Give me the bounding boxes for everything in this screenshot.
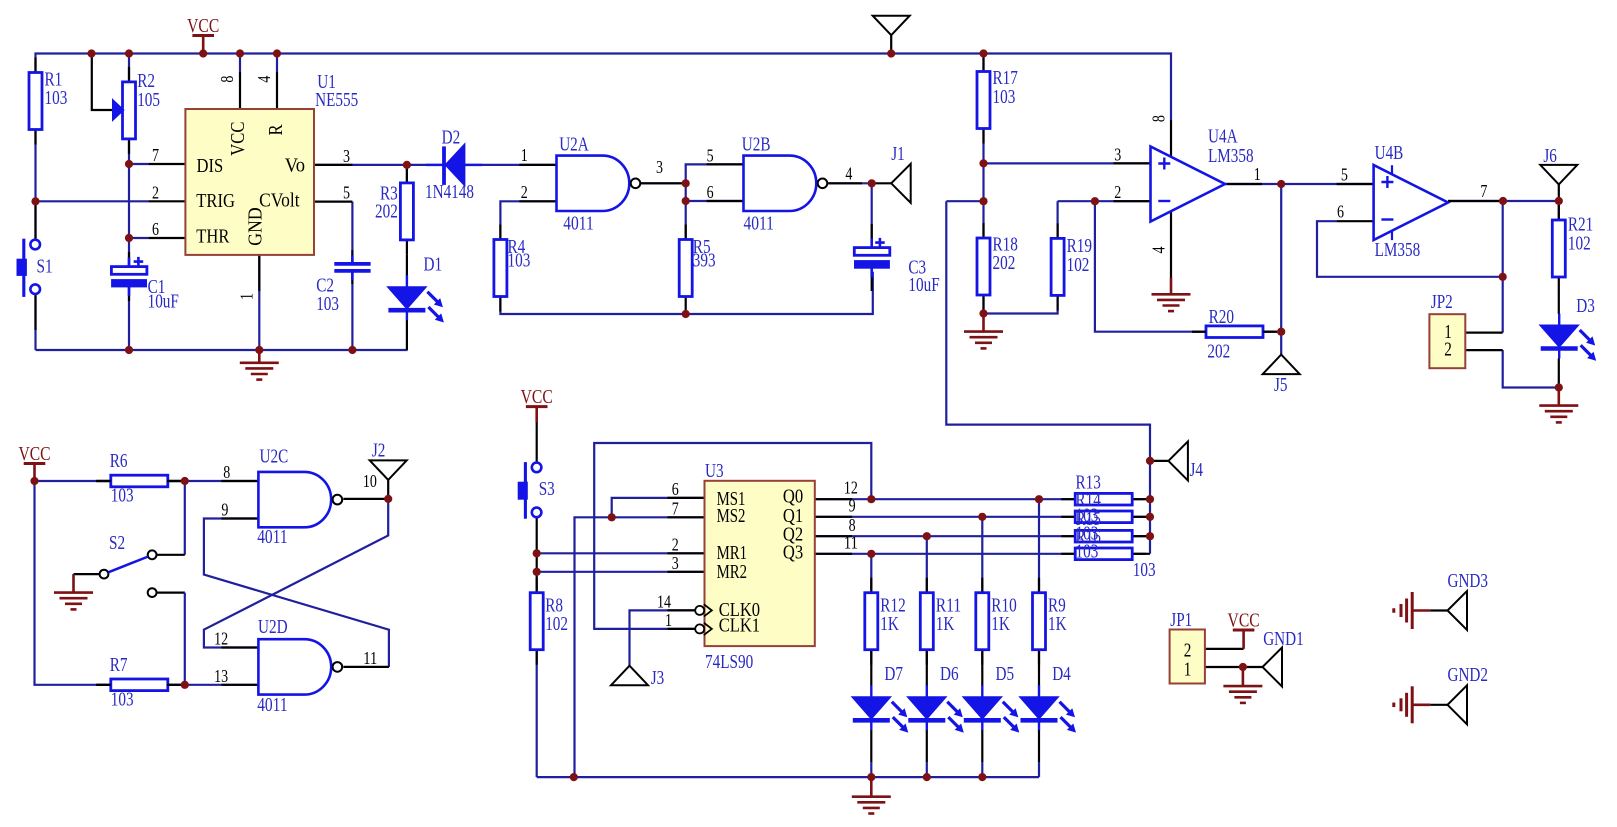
- op-amp U4B LM358: [1374, 165, 1449, 240]
- switch S1: [30, 240, 40, 250]
- svg-text:103: 103: [1076, 542, 1099, 563]
- wire Vo node to R3/D2: [314, 164, 443, 166]
- wire R2 wiper tap: [92, 54, 113, 111]
- svg-text:S2: S2: [109, 533, 125, 554]
- wire Q1 line to R14: [815, 516, 1075, 518]
- svg-text:D2: D2: [442, 128, 461, 149]
- svg-text:GND1: GND1: [1263, 629, 1304, 650]
- svg-text:4011: 4011: [744, 213, 774, 234]
- svg-text:7: 7: [152, 145, 159, 165]
- svg-text:U2D: U2D: [258, 617, 288, 638]
- connector J1: [891, 164, 911, 203]
- svg-text:6: 6: [707, 182, 714, 202]
- connector GND2 triangle: [1448, 685, 1468, 724]
- svg-text:R20: R20: [1209, 307, 1234, 328]
- svg-text:4011: 4011: [257, 527, 287, 548]
- NAND gate U2D: [258, 639, 331, 694]
- svg-text:9: 9: [849, 496, 856, 516]
- resistor R1: [34, 58, 36, 145]
- svg-text:5: 5: [707, 145, 714, 165]
- svg-text:U2B: U2B: [742, 135, 771, 156]
- svg-text:J4: J4: [1190, 460, 1204, 481]
- wire pin stubs U2C U2D: [221, 480, 258, 482]
- ground under R18: [982, 314, 985, 332]
- IC U1 NE555 body: [185, 109, 314, 255]
- svg-text:4: 4: [254, 76, 274, 83]
- svg-text:D6: D6: [940, 664, 959, 685]
- wire R2/C1 column DIS THR net: [128, 54, 130, 82]
- svg-text:U2A: U2A: [559, 135, 589, 156]
- connector J4: [1168, 441, 1188, 480]
- wire pin stubs U3: [668, 497, 705, 499]
- resistor R21: [1558, 205, 1560, 292]
- svg-text:2: 2: [521, 182, 528, 202]
- switch S3: [532, 463, 542, 473]
- svg-text:D4: D4: [1052, 664, 1071, 685]
- svg-text:4: 4: [845, 163, 852, 183]
- wire CLK1 loop to Q0: [594, 443, 871, 629]
- svg-text:12: 12: [844, 478, 858, 498]
- wire bottom ground rail: [537, 776, 1039, 778]
- svg-text:S1: S1: [37, 257, 53, 278]
- wire U4A out net to R20/J5 and U4B pin5: [1226, 183, 1282, 185]
- svg-text:VCC: VCC: [1228, 610, 1260, 632]
- svg-text:MR2: MR2: [717, 562, 748, 583]
- svg-text:R: R: [266, 124, 287, 135]
- connector J2: [370, 460, 407, 480]
- svg-text:1: 1: [1254, 164, 1261, 184]
- svg-text:LM358: LM358: [1208, 146, 1254, 167]
- wire S2 pole to ground: [74, 573, 100, 575]
- svg-text:LM358: LM358: [1375, 240, 1421, 261]
- wire U2B out to J1 and C3: [828, 182, 872, 184]
- svg-text:11: 11: [363, 648, 377, 668]
- header JP2: [1429, 314, 1465, 368]
- wire R4 R5 C3 bottom rail: [500, 272, 872, 314]
- LED D5: [981, 685, 983, 730]
- wire R3 to D1: [406, 255, 408, 276]
- wire Q3 down to R12: [870, 554, 872, 593]
- svg-text:R7: R7: [110, 655, 128, 676]
- wire U4B pin6 feedback loop: [1317, 221, 1503, 277]
- wire antenna stub top: [890, 35, 892, 53]
- svg-text:103: 103: [45, 88, 68, 109]
- svg-text:5: 5: [343, 183, 350, 203]
- wire VCC top rail: [36, 54, 1172, 121]
- resistor R4: [499, 225, 501, 312]
- svg-text:103: 103: [111, 689, 134, 710]
- wire left VCC to R6 R7: [35, 480, 111, 482]
- wire U1 pin1 to ground rail: [258, 255, 260, 350]
- wire D2 to U2A pin1: [464, 164, 556, 166]
- connector J5: [1263, 355, 1300, 375]
- wire Q1 down to R10: [981, 517, 983, 593]
- svg-text:9: 9: [221, 500, 228, 520]
- op-amp U4A LM358: [1151, 147, 1226, 222]
- wire CLK0 to J3: [630, 610, 696, 665]
- resistor R16: [1061, 553, 1146, 555]
- wire U2D out pin11: [343, 666, 389, 668]
- resistor R19: [1056, 223, 1058, 310]
- wire U2C out to J2 and cross to U2D pin12: [343, 498, 388, 500]
- svg-text:THR: THR: [196, 226, 229, 247]
- svg-text:10uF: 10uF: [148, 292, 179, 313]
- svg-text:6: 6: [1337, 201, 1344, 221]
- svg-text:1: 1: [237, 293, 257, 300]
- wire J4 stub: [1150, 460, 1168, 462]
- NAND gate U2C: [258, 472, 331, 527]
- wire MS1 MS2 to ground rail: [612, 498, 705, 517]
- svg-text:1K: 1K: [991, 614, 1010, 635]
- svg-text:GND2: GND2: [1448, 665, 1489, 686]
- svg-text:U3: U3: [705, 461, 724, 482]
- connector GND3 triangle: [1448, 591, 1468, 630]
- U3 clock input bubbles and arrows: [695, 606, 704, 615]
- svg-text:3: 3: [672, 553, 679, 573]
- svg-text:DIS: DIS: [197, 156, 224, 177]
- wire J4 long trace: [946, 200, 983, 202]
- svg-text:4: 4: [1149, 247, 1169, 254]
- wire pin stubs gates U2A U2B: [519, 164, 556, 166]
- wire R18 bottom to ground and R19: [984, 297, 1058, 314]
- svg-text:1N4148: 1N4148: [425, 182, 474, 203]
- resistor R18: [982, 223, 984, 310]
- ground under S2 pole: [72, 574, 75, 593]
- svg-text:MS2: MS2: [717, 506, 746, 527]
- wire S2 lower contact column: [157, 591, 185, 593]
- svg-text:102: 102: [1067, 255, 1090, 276]
- svg-text:7: 7: [672, 498, 679, 518]
- wire U1 pin8 pin4 to VCC rail: [239, 54, 241, 73]
- svg-text:5: 5: [1341, 164, 1348, 184]
- IC U3 74LS90 body: [705, 481, 815, 646]
- LED D3: [1558, 314, 1560, 359]
- LED D6: [926, 685, 928, 730]
- svg-text:GND3: GND3: [1448, 571, 1489, 592]
- svg-text:2: 2: [672, 534, 679, 554]
- svg-text:1K: 1K: [1048, 614, 1067, 635]
- wire S3 column MR1 MR2 R8: [536, 423, 538, 463]
- antenna connector top: [873, 16, 910, 36]
- svg-text:102: 102: [545, 614, 568, 635]
- resistor R9: [1038, 578, 1040, 665]
- ground under JP1 pin1: [1242, 667, 1245, 686]
- svg-text:1K: 1K: [880, 614, 899, 635]
- wire U4A pin2 / R19 / R20 net: [1056, 201, 1058, 238]
- svg-text:11: 11: [844, 533, 858, 553]
- svg-text:14: 14: [657, 591, 671, 611]
- wire Q2 down to R11: [926, 536, 928, 593]
- svg-text:10uF: 10uF: [908, 275, 939, 296]
- junction dots: [87, 49, 95, 57]
- svg-text:D1: D1: [424, 255, 443, 276]
- svg-text:Vo: Vo: [285, 156, 305, 177]
- svg-text:J3: J3: [651, 668, 665, 689]
- wire S1 pin stubs black: [34, 201, 36, 239]
- wire R7 to U2D pin13: [167, 684, 258, 686]
- svg-text:102: 102: [1568, 233, 1591, 254]
- ground under D3: [1558, 388, 1561, 406]
- wire R1 to S1 / TRIG net: [34, 130, 36, 241]
- svg-text:202: 202: [993, 253, 1016, 274]
- wire bottom rail left block: [36, 349, 408, 351]
- wire pin stubs U4A U4B: [1114, 162, 1151, 164]
- svg-text:103: 103: [508, 251, 531, 272]
- svg-text:D7: D7: [884, 664, 903, 685]
- power ground GND3: [1411, 592, 1414, 629]
- wire CVolt to C2: [351, 202, 353, 264]
- svg-text:8: 8: [223, 462, 230, 482]
- svg-text:4011: 4011: [563, 213, 593, 234]
- resistor R7: [97, 684, 182, 686]
- wire C3 pin stubs black: [871, 224, 873, 248]
- wire J1 stub: [872, 182, 892, 184]
- power ground GND2: [1411, 686, 1414, 723]
- switch S2: [100, 570, 109, 579]
- svg-text:J6: J6: [1543, 146, 1557, 167]
- svg-text:D5: D5: [996, 664, 1015, 685]
- resistor R6: [97, 480, 182, 482]
- ground under U1 pin1: [258, 350, 261, 363]
- NAND gate U2A: [557, 156, 630, 211]
- svg-text:1: 1: [1184, 660, 1192, 681]
- svg-text:TRIG: TRIG: [196, 191, 235, 212]
- svg-text:JP2: JP2: [1431, 292, 1453, 313]
- wire U4A pin4 to ground: [1170, 207, 1172, 278]
- resistor R15: [1061, 535, 1146, 537]
- svg-text:1: 1: [521, 145, 528, 165]
- capacitor C2: [351, 255, 354, 280]
- svg-text:3: 3: [1114, 144, 1121, 164]
- connector J6: [1540, 165, 1577, 185]
- svg-text:393: 393: [693, 251, 716, 272]
- resistor R5: [685, 225, 687, 312]
- svg-text:J1: J1: [891, 144, 905, 165]
- resistor R10: [981, 578, 983, 665]
- wire JP2 pin2 to D3 bottom: [1503, 350, 1559, 387]
- wire LED columns to bottom rail: [870, 650, 872, 686]
- ground bottom rail: [870, 777, 873, 797]
- wire R17 column: [982, 54, 984, 72]
- svg-text:6: 6: [152, 219, 159, 239]
- svg-text:2: 2: [152, 182, 159, 202]
- svg-text:8: 8: [1149, 115, 1169, 122]
- diode D2 1N4148: [426, 164, 482, 166]
- svg-text:Q0: Q0: [783, 487, 803, 508]
- wire U4A pin8: [1170, 120, 1172, 160]
- svg-text:J5: J5: [1274, 375, 1288, 396]
- resistor R8: [536, 578, 538, 665]
- svg-text:105: 105: [137, 90, 160, 111]
- svg-text:103: 103: [993, 87, 1016, 108]
- svg-text:3: 3: [656, 157, 663, 177]
- connector J3: [611, 666, 648, 686]
- svg-text:U2C: U2C: [260, 447, 289, 468]
- svg-text:6: 6: [672, 479, 679, 499]
- svg-text:NE555: NE555: [315, 90, 358, 111]
- svg-text:10: 10: [363, 471, 377, 491]
- svg-text:74LS90: 74LS90: [705, 652, 753, 673]
- svg-text:J2: J2: [372, 440, 386, 461]
- svg-text:GND: GND: [246, 207, 267, 245]
- resistor R14: [1061, 516, 1146, 518]
- svg-text:1K: 1K: [936, 614, 955, 635]
- svg-text:U4A: U4A: [1208, 126, 1238, 147]
- wire R8 bottom to rail: [536, 650, 538, 777]
- resistor R13: [1061, 498, 1146, 500]
- wire R21 to D3: [1558, 292, 1560, 314]
- capacitor C1: [128, 258, 131, 297]
- svg-text:202: 202: [1207, 341, 1230, 362]
- wire pin stubs JP2: [1465, 332, 1502, 334]
- LED D1: [406, 275, 408, 320]
- svg-text:4011: 4011: [257, 695, 287, 716]
- ground under U4A pin4: [1170, 278, 1173, 295]
- LED D7: [870, 685, 872, 730]
- svg-text:13: 13: [214, 666, 228, 686]
- wire C2 pin stubs black: [351, 250, 353, 264]
- svg-text:VCC: VCC: [228, 122, 249, 156]
- svg-text:2: 2: [1444, 339, 1452, 360]
- resistor R20: [1192, 331, 1277, 333]
- resistor R12: [870, 578, 872, 665]
- wire U2A pin2 to R4: [500, 201, 556, 239]
- wire S2 common column upper: [184, 481, 186, 555]
- svg-text:103: 103: [111, 486, 134, 507]
- wire U2C pin9 cross link from U2D out: [204, 519, 389, 667]
- resistor R3: [406, 168, 408, 255]
- svg-text:S3: S3: [539, 479, 555, 500]
- svg-text:D3: D3: [1576, 296, 1595, 317]
- svg-text:VCC: VCC: [521, 386, 553, 408]
- svg-text:3: 3: [343, 146, 350, 166]
- svg-text:U4B: U4B: [1375, 143, 1404, 164]
- svg-text:202: 202: [375, 202, 398, 223]
- header JP1: [1170, 630, 1205, 684]
- wire D1 to ground rail: [406, 320, 408, 350]
- svg-text:R6: R6: [110, 451, 128, 472]
- svg-text:103: 103: [1133, 560, 1156, 581]
- wire R6 to U2C pin8: [167, 480, 258, 482]
- svg-text:103: 103: [316, 294, 339, 315]
- resistor R17: [982, 57, 984, 144]
- wire Q0 down to R9: [1038, 499, 1040, 593]
- svg-text:2: 2: [1184, 641, 1192, 662]
- NAND gate U2B: [744, 156, 817, 211]
- wire U4B out to J6 R21: [1448, 200, 1559, 202]
- svg-text:12: 12: [214, 629, 228, 649]
- svg-text:2: 2: [1114, 182, 1121, 202]
- potentiometer R2: [128, 67, 130, 154]
- wire D3 bottom: [1558, 359, 1560, 388]
- svg-text:8: 8: [217, 76, 237, 83]
- wire C1 pin stubs black: [128, 252, 130, 266]
- capacitor C3: [870, 239, 873, 278]
- wire Q2 line to R15: [815, 535, 1075, 537]
- svg-text:CLK1: CLK1: [719, 616, 760, 637]
- wire JP1 pin1 to GND1: [1205, 666, 1263, 668]
- svg-text:VCC: VCC: [18, 443, 50, 465]
- svg-text:Q3: Q3: [783, 542, 803, 563]
- svg-text:VCC: VCC: [187, 15, 219, 37]
- LED D4: [1038, 685, 1040, 730]
- resistor R11: [926, 578, 928, 665]
- connector GND1: [1263, 648, 1283, 687]
- wire JP1 pin2 to VCC: [1205, 648, 1244, 650]
- svg-text:1: 1: [665, 610, 672, 630]
- wire Q3 line to R16: [815, 553, 1075, 555]
- wire U2A out to U2B inputs / R5 column: [641, 182, 686, 184]
- svg-text:7: 7: [1480, 181, 1487, 201]
- wire Q0 line to R13: [815, 498, 1075, 500]
- svg-text:JP1: JP1: [1170, 610, 1192, 631]
- wire R17/R18 node to U4A pin3: [984, 162, 1151, 164]
- wire pin stubs U1: [148, 163, 185, 165]
